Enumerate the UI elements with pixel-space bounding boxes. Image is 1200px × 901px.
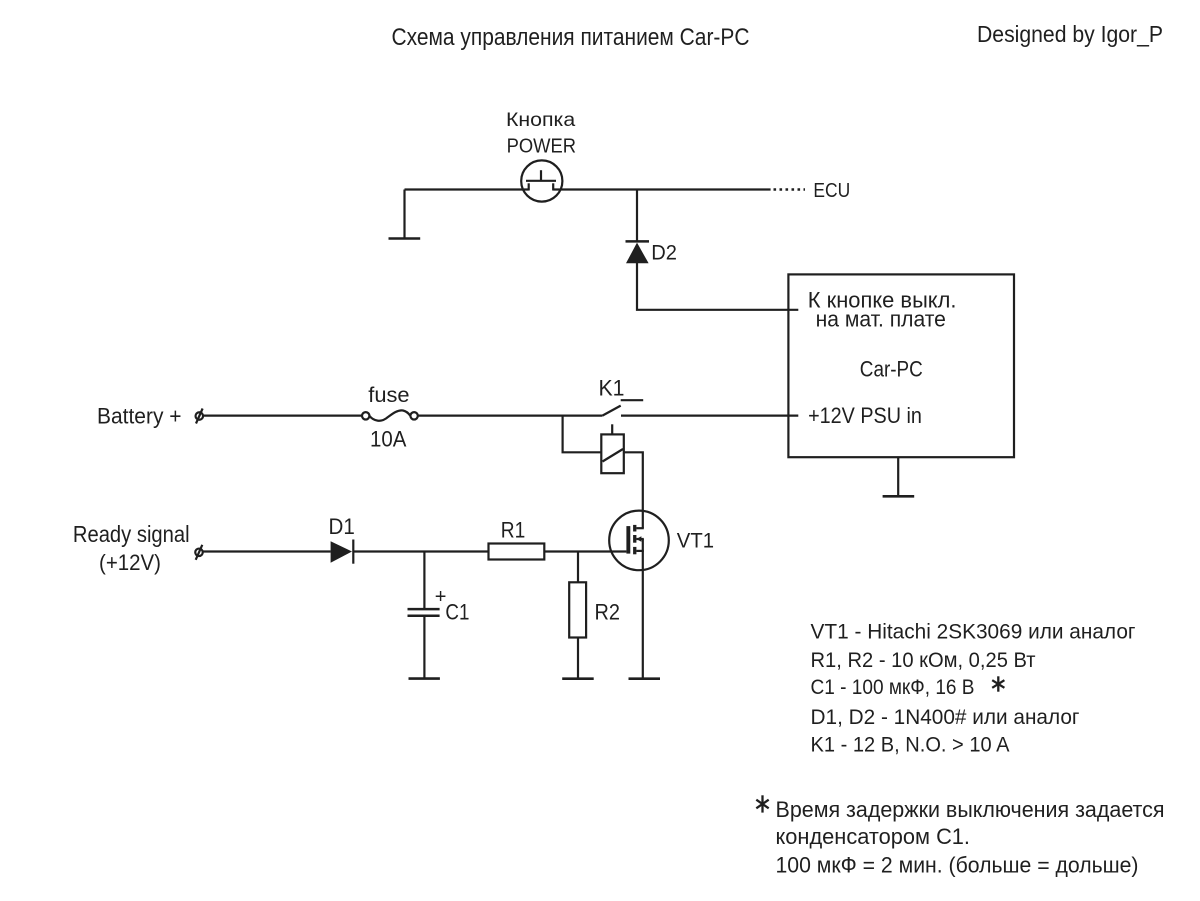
wire: VT1 source down to ground (642, 539, 644, 679)
svg-text:fuse: fuse (368, 384, 409, 407)
resistor R2 (569, 582, 586, 637)
svg-text:10A: 10A (370, 427, 407, 452)
relay coil K1 (601, 424, 624, 473)
svg-text:Кнопка: Кнопка (506, 109, 575, 131)
wire: coil to VT1 drain (624, 452, 643, 528)
svg-text:K1: K1 (599, 376, 625, 401)
wire: tap down to C1 (423, 552, 425, 610)
wire: tap down to relay coil (563, 416, 602, 453)
svg-text:Время задержки выключения зада: Время задержки выключения задается (776, 797, 1165, 822)
dotted link to ECU (774, 188, 806, 191)
wire: R1 to VT1 gate (544, 550, 626, 552)
svg-text:на мат. плате: на мат. плате (816, 307, 946, 332)
svg-text:C1: C1 (445, 600, 469, 625)
svg-text:R1: R1 (501, 517, 526, 542)
svg-text:Battery +: Battery + (97, 404, 182, 429)
wire: R2 to ground (577, 638, 579, 679)
wire: fuse to relay contact K1 (418, 415, 603, 417)
ground (Car-PC) (883, 457, 915, 496)
Car-PC box (788, 274, 1014, 457)
svg-text:конденсатором С1.: конденсатором С1. (776, 824, 971, 849)
label: К кнопке выкл. / на мат. плате (808, 288, 957, 332)
asterisk marker (footnote) (756, 795, 768, 812)
svg-text:ECU: ECU (813, 179, 850, 202)
wire: D1 to R1 (353, 550, 488, 552)
fuse 10A (362, 410, 418, 420)
diode D1 (331, 540, 354, 564)
svg-text:D2: D2 (651, 242, 677, 265)
capacitor C1 (408, 609, 440, 616)
ground (VT1) (629, 677, 661, 680)
ground (C1) (409, 677, 440, 680)
svg-text:R2: R2 (595, 600, 621, 625)
relay contact K1 (602, 400, 643, 415)
asterisk marker (after 16 В) (992, 676, 1004, 691)
label Ready signal (+12V) (73, 521, 190, 575)
svg-text:Car-PC: Car-PC (860, 357, 923, 382)
wire: battery terminal to fuse (203, 415, 362, 417)
wire: left segment to pushbutton (405, 188, 529, 190)
pushbutton POWER (521, 160, 562, 201)
terminal: ready signal (195, 545, 203, 560)
ground (R2) (562, 677, 594, 680)
wire: C1 to ground (423, 616, 425, 679)
svg-text:100 мкФ = 2 мин. (больше = дол: 100 мкФ = 2 мин. (больше = дольше) (776, 853, 1139, 878)
wire: terminal to diode D1 (203, 550, 331, 552)
svg-text:Схема управления питанием Car-: Схема управления питанием Car-PC (392, 24, 750, 51)
diode D2 (626, 241, 650, 263)
parts list (811, 620, 1136, 757)
wire: pushbutton to ECU stub (553, 188, 770, 190)
wire: D2 to Car-PC power-button pin (637, 262, 798, 310)
footnote (756, 795, 1164, 877)
svg-text:R1, R2 - 10 кОм, 0,25 Вт: R1, R2 - 10 кОм, 0,25 Вт (811, 648, 1036, 672)
svg-text:D1: D1 (329, 514, 355, 539)
ground (top left) (389, 190, 421, 239)
svg-text:Ready signal: Ready signal (73, 521, 190, 547)
svg-text:VT1 - Hitachi 2SK3069 или анал: VT1 - Hitachi 2SK3069 или аналог (811, 620, 1136, 644)
MOSFET VT1 (609, 511, 669, 571)
svg-text:+12V PSU in: +12V PSU in (808, 403, 922, 428)
svg-text:D1, D2 - 1N400# или аналог: D1, D2 - 1N400# или аналог (811, 705, 1080, 729)
svg-text:(+12V): (+12V) (99, 550, 161, 575)
terminal: battery (196, 409, 204, 424)
label Кнопка POWER (506, 109, 576, 158)
wire: tap down to R2 (577, 552, 579, 583)
svg-text:K1 - 12 В, N.O. > 10 A: K1 - 12 В, N.O. > 10 A (811, 733, 1011, 757)
resistor R1 (489, 544, 545, 560)
wire: tap down to diode D2 (636, 190, 638, 242)
svg-text:POWER: POWER (507, 136, 576, 158)
svg-text:C1 - 100 мкФ, 16 В: C1 - 100 мкФ, 16 В (811, 675, 975, 699)
svg-text:VT1: VT1 (677, 530, 714, 553)
wire: K1 to Car-PC +12V pin (621, 415, 798, 417)
svg-text:Designed by Igor_P: Designed by Igor_P (977, 21, 1163, 47)
